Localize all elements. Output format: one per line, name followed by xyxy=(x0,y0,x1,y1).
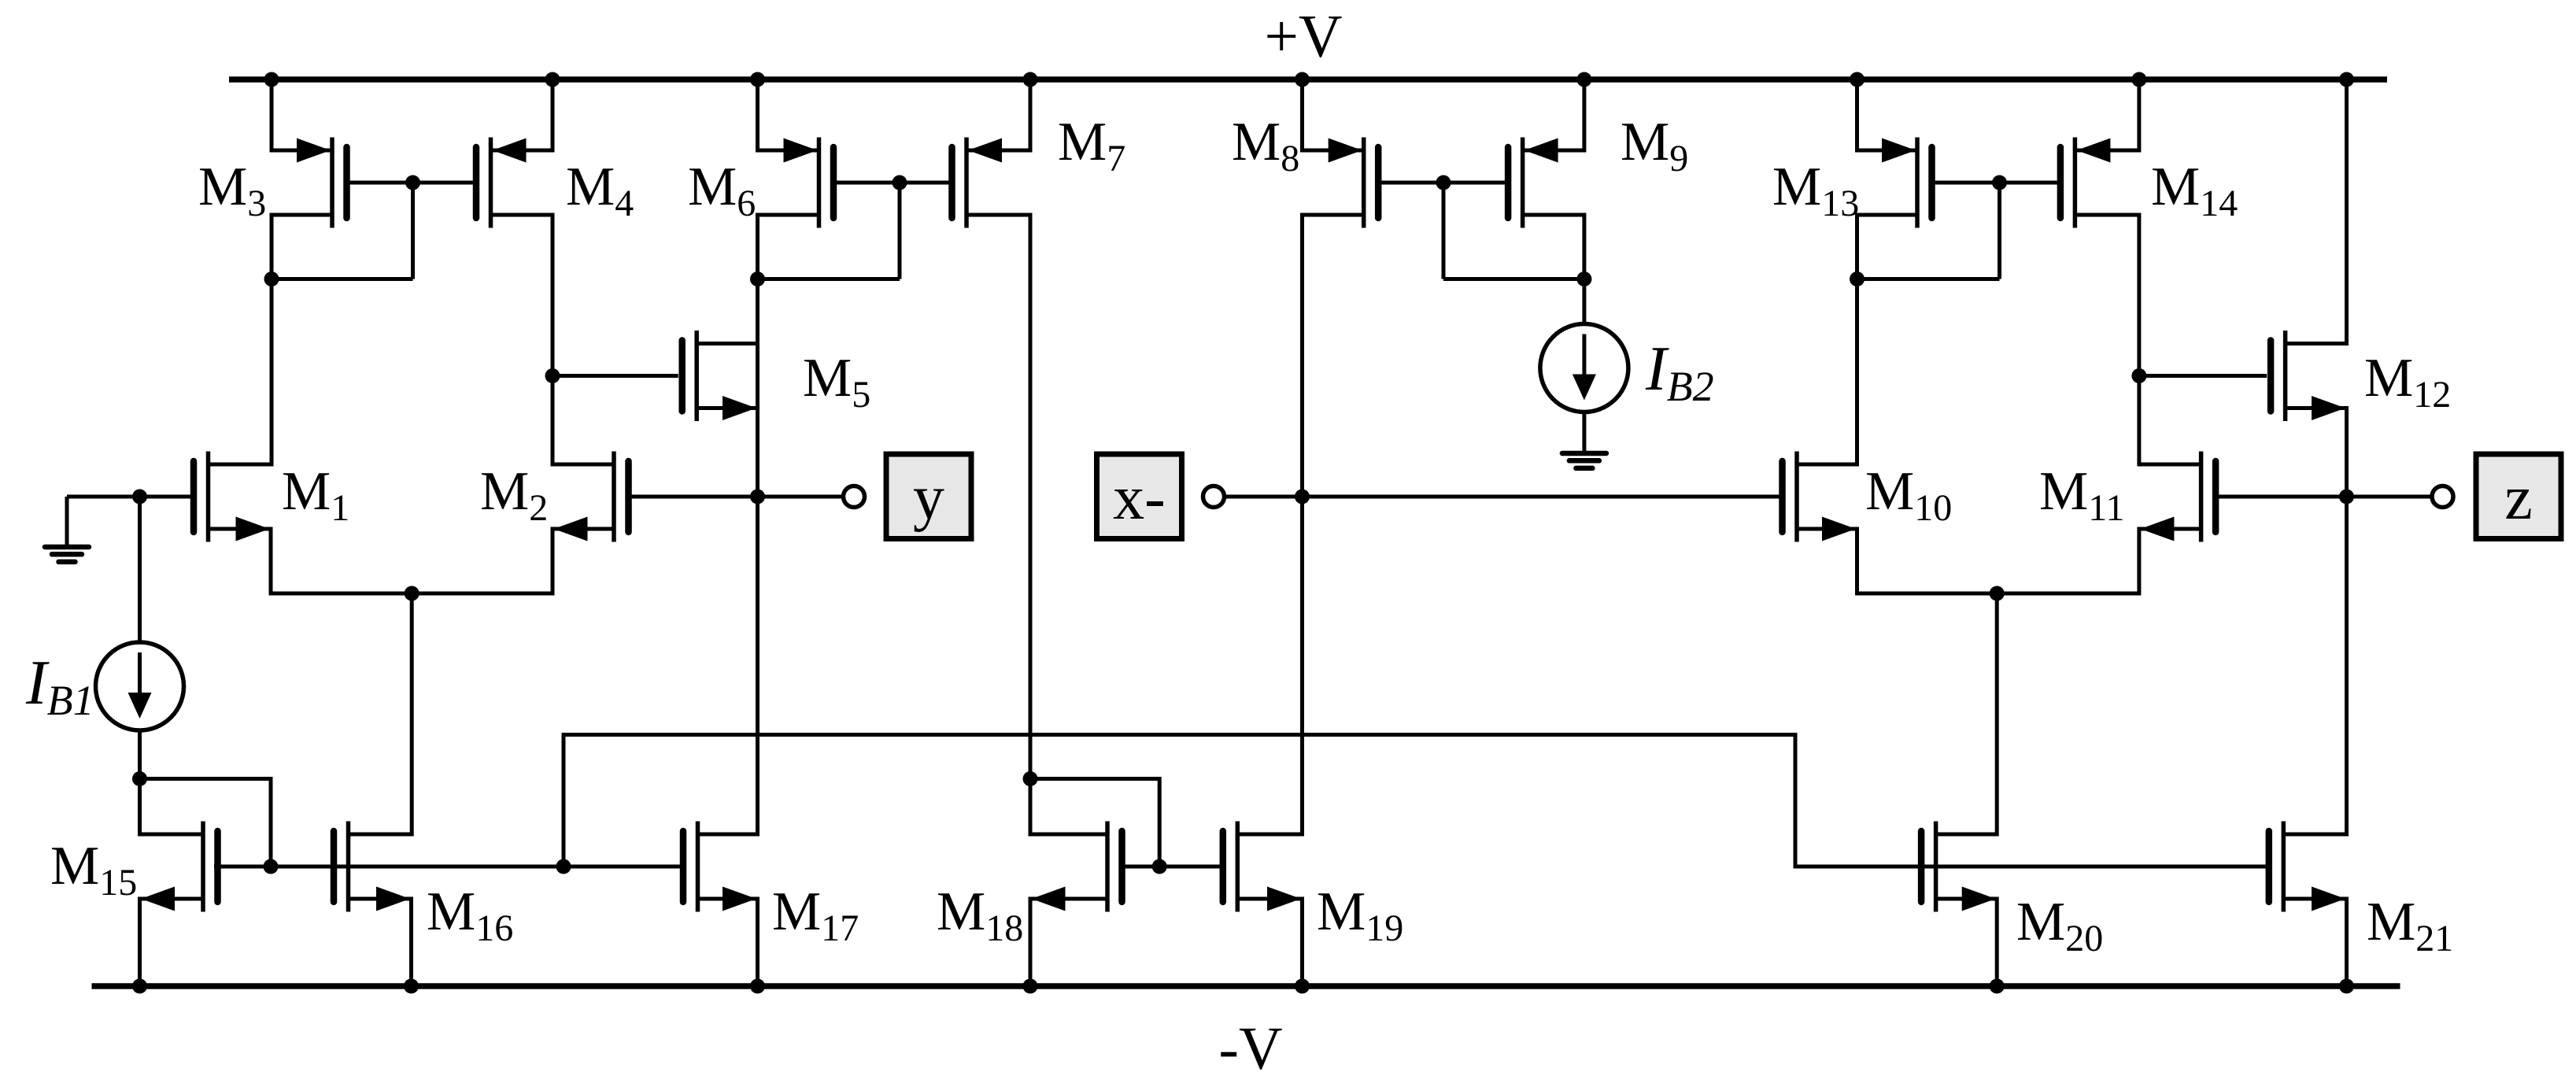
label M10 xyxy=(1865,461,1952,529)
wire M20 source to -V rail, junction on rail xyxy=(1990,897,2005,994)
label M6 xyxy=(688,157,756,224)
wire +V rail to M9 source, junction on rail xyxy=(1576,72,1591,153)
wire +V rail to M3 source, junction on rail xyxy=(264,72,279,153)
wire M6 drain diode connection, junction at node xyxy=(750,272,900,286)
wire M6 drain to y node to M17 drain xyxy=(756,213,759,837)
transistor M17 xyxy=(683,822,758,912)
transistor M1 xyxy=(194,452,271,542)
open node circle z xyxy=(2432,486,2453,508)
wire M14 drain to M11 drain via M12 gate node xyxy=(2131,213,2146,467)
wire M8 drain to x- node to M19 drain xyxy=(1300,213,1304,837)
wire long mirror bus crossover xyxy=(562,733,1798,737)
wire mirror gate bus M20-M21 xyxy=(1794,865,2267,869)
wire M3 drain to M1 drain xyxy=(270,213,274,467)
label M12 xyxy=(2364,348,2451,416)
transistor M18 xyxy=(1030,822,1122,912)
wire M4 drain to M2 drain via M5 gate node xyxy=(545,213,560,467)
wire M9 drain diode connection, junction at node xyxy=(1443,272,1591,286)
current source IB2 xyxy=(1540,324,1628,412)
label M1 xyxy=(282,461,349,529)
transistor M8 xyxy=(1303,138,1379,228)
label M2 xyxy=(480,461,548,529)
svg-text:x-: x- xyxy=(1113,464,1166,533)
label IB2 xyxy=(1645,334,1714,410)
svg-text:y: y xyxy=(913,464,944,533)
wire M17 source to -V rail, junction on rail xyxy=(750,897,765,994)
open node circle x- xyxy=(1203,486,1225,508)
transistor M11 xyxy=(2139,452,2216,542)
label M13 xyxy=(1772,157,1859,224)
label M5 xyxy=(803,348,870,416)
wire M2 gate to y terminal with junction xyxy=(632,490,844,504)
wire M18 drain diode jog with junction xyxy=(1023,771,1160,867)
label M17 xyxy=(772,881,859,949)
wire +V rail to M13 source, junction on rail xyxy=(1850,72,1865,153)
transistor M19 xyxy=(1223,822,1303,912)
label M9 xyxy=(1621,112,1688,179)
-V power rail xyxy=(92,986,2400,1079)
wire M13 drain to M10 drain xyxy=(1855,213,1859,467)
transistor M3 xyxy=(272,138,347,228)
label M8 xyxy=(1232,112,1299,179)
wire M16 source to -V rail, junction on rail xyxy=(404,897,419,994)
svg-text:-V: -V xyxy=(1218,1014,1282,1079)
svg-text:+V: +V xyxy=(1264,2,1342,70)
wire +V rail to M4 source, junction on rail xyxy=(545,72,560,153)
wire IB2 to ground xyxy=(1582,412,1586,454)
terminal box y xyxy=(886,454,971,539)
label M19 xyxy=(1317,881,1403,949)
wire M15 source to -V rail, junction on rail xyxy=(132,897,147,994)
current source IB1 xyxy=(96,642,184,730)
label M11 xyxy=(2039,461,2124,529)
terminal box z xyxy=(2476,454,2561,539)
wire +V rail to M8 source, junction on rail xyxy=(1295,72,1310,153)
wire M13-M14 gate node with junction xyxy=(1935,176,2058,279)
transistor M5 xyxy=(682,331,758,421)
transistor M13 xyxy=(1857,138,1932,228)
wire +V rail to M14 source, junction on rail xyxy=(2131,72,2146,153)
label M14 xyxy=(2151,157,2238,224)
+V power rail xyxy=(229,2,2387,79)
wire M19 source to -V rail, junction on rail xyxy=(1295,897,1310,994)
label M7 xyxy=(1058,112,1125,179)
transistor M15 xyxy=(140,822,218,912)
transistor M20 xyxy=(1921,822,1997,912)
transistor M12 xyxy=(2271,331,2346,421)
wire gate bus riser right xyxy=(1794,735,1798,867)
wire M1 gate to ground stub with junction xyxy=(67,490,192,548)
label M21 xyxy=(2367,892,2453,959)
open node circle y xyxy=(844,486,865,508)
wire M18-M19 gate bus with junction xyxy=(1125,859,1220,874)
wire z node to terminal with junction xyxy=(2339,490,2430,504)
wire M6-M7 gate node with junction xyxy=(836,176,950,279)
wire M11 gate to z node xyxy=(2219,495,2347,499)
ground symbol at M1 gate xyxy=(45,547,89,562)
wire M1-M2 tail to M16 with junction xyxy=(271,527,553,837)
wire gate bus riser left xyxy=(562,737,566,867)
wire M8-M9 gate node with junction xyxy=(1380,176,1505,279)
wire M12 gate to M14 drain node xyxy=(2139,374,2267,378)
wire M7 drain to M18 drain xyxy=(1029,213,1033,837)
transistor M4 xyxy=(476,138,553,228)
wire mirror gate bus M15-M16-M17 with junctions xyxy=(214,859,681,874)
wire M18 source to -V rail, junction on rail xyxy=(1023,897,1038,994)
label M18 xyxy=(937,881,1023,949)
label M16 xyxy=(427,881,513,949)
wire M3 drain diode connection, junction at node xyxy=(264,272,413,286)
wire M13 drain diode connection, junction at node xyxy=(1850,272,2000,286)
label M3 xyxy=(198,157,266,224)
wire M9 drain to IB2 xyxy=(1582,213,1586,324)
wire M1 gate node to IB1 xyxy=(138,497,142,642)
terminal box x- xyxy=(1097,454,1182,539)
transistor M9 xyxy=(1508,138,1584,228)
transistor M14 xyxy=(2060,138,2139,228)
label M20 xyxy=(2016,892,2103,959)
wire x- terminal to M10 gate with junction xyxy=(1225,490,1780,504)
transistor M10 xyxy=(1783,452,1857,542)
wire IB1 to mirror node with junction xyxy=(132,730,147,837)
transistor M6 xyxy=(758,138,834,228)
wire +V rail to M6 source, junction on rail xyxy=(750,72,765,153)
label M4 xyxy=(566,157,634,224)
transistor M21 xyxy=(2269,822,2347,912)
transistor M2 xyxy=(553,452,629,542)
label IB1 xyxy=(25,649,94,724)
wire IB1 node to gate bus xyxy=(140,779,272,867)
wire M3-M4 gate node with junction xyxy=(349,176,475,279)
ground symbol below IB2 xyxy=(1562,453,1606,468)
svg-text:z: z xyxy=(2504,464,2533,533)
wire +V rail to M12 drain, junction on rail xyxy=(2339,72,2354,346)
wire M21 source to -V rail, junction on rail xyxy=(2339,897,2354,994)
wire M5 gate to M4 drain node xyxy=(553,374,678,378)
wire +V rail to M7 source, junction on rail xyxy=(1023,72,1038,153)
wire M10-M11 tail to M20 with junction xyxy=(1857,527,2139,837)
label M15 xyxy=(50,836,137,903)
wire M12 source to z node to M21 drain xyxy=(2345,406,2349,837)
transistor M16 xyxy=(334,822,412,912)
transistor M7 xyxy=(952,138,1031,228)
